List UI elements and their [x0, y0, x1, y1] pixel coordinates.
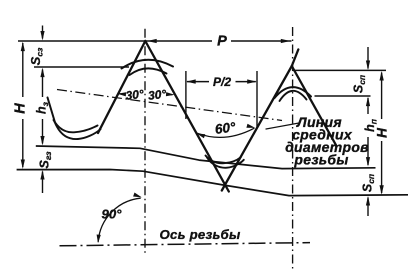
svg-text:60°: 60° — [214, 119, 237, 136]
svg-text:30°: 30° — [147, 87, 167, 103]
svg-text:H: H — [13, 103, 29, 114]
svg-text:резьбы: резьбы — [293, 152, 348, 168]
svg-text:H: H — [375, 128, 390, 138]
svg-text:30°: 30° — [125, 87, 145, 103]
svg-text:90°: 90° — [102, 207, 123, 222]
svg-text:P/2: P/2 — [213, 75, 231, 89]
svg-text:Ось резьбы: Ось резьбы — [160, 227, 241, 242]
svg-text:P: P — [217, 34, 227, 50]
